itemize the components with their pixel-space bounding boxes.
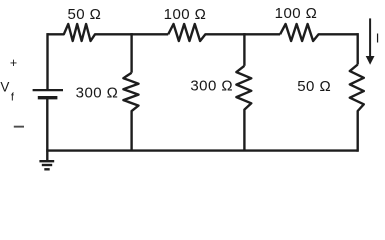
battery source Vf bottom plate [38, 96, 58, 99]
current arrow I shaft [369, 18, 371, 57]
svg-text:f: f [11, 92, 15, 104]
resistor R2 100 ohm [168, 24, 280, 41]
current arrow I head [366, 56, 375, 65]
ground bar 2 [42, 164, 52, 166]
ground bar 3 [44, 168, 49, 170]
resistor R5 300 ohm vertical [236, 66, 251, 151]
resistor R1 50 ohm [48, 24, 169, 41]
wire node A drop [130, 33, 132, 73]
label source polarity minus [14, 126, 24, 128]
svg-text:50 Ω: 50 Ω [297, 78, 331, 95]
svg-text:I: I [376, 31, 380, 46]
svg-text:300 Ω: 300 Ω [76, 84, 119, 101]
resistor R6 50 ohm vertical [350, 65, 364, 152]
svg-text:+: + [10, 56, 18, 70]
wire bottom rail [46, 149, 358, 151]
ground stub [46, 151, 48, 160]
svg-text:100 Ω: 100 Ω [275, 5, 318, 22]
resistor R3 100 ohm [280, 24, 358, 41]
svg-text:300 Ω: 300 Ω [190, 78, 233, 95]
ground bar 1 [39, 160, 54, 162]
wire node B drop [243, 33, 245, 66]
wire below source [46, 98, 48, 151]
wire right branch [357, 33, 359, 64]
svg-text:100 Ω: 100 Ω [164, 6, 207, 23]
svg-text:V: V [0, 80, 9, 95]
battery source Vf top plate [33, 89, 63, 91]
svg-text:50 Ω: 50 Ω [67, 6, 101, 23]
resistor R4 300 ohm vertical [123, 73, 138, 151]
wire left branch to source [46, 33, 48, 89]
